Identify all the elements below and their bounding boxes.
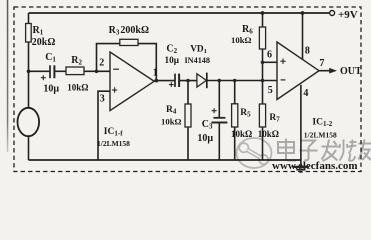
wire pin3 to ground rail — [98, 91, 110, 160]
op-amp U1 triangle — [110, 52, 154, 111]
svg-text:10kΩ: 10kΩ — [258, 129, 279, 139]
node pin6 tap — [261, 61, 265, 65]
svg-text:10kΩ: 10kΩ — [67, 83, 88, 93]
svg-text:OUT: OUT — [340, 66, 362, 77]
svg-text:IC1-2: IC1-2 — [312, 118, 332, 129]
resistor R4 — [185, 104, 191, 127]
wire C1 to R2 to pin2 — [29, 70, 50, 72]
wire R4 branch — [187, 81, 189, 104]
op1 minus input mark — [113, 68, 119, 70]
resistor R3 — [120, 39, 138, 45]
op1 plus input mark — [112, 87, 117, 92]
svg-text:7: 7 — [319, 58, 324, 69]
svg-text:+9V: +9V — [338, 9, 358, 21]
node R6 top rail tap — [261, 11, 265, 15]
svg-text:IN4148: IN4148 — [185, 56, 210, 65]
node R5 tap — [233, 79, 237, 83]
svg-text:R5: R5 — [240, 108, 251, 119]
wire op2 output — [319, 70, 331, 72]
node pin8 rail tap — [301, 11, 305, 15]
node main wire / R7 tap — [261, 79, 265, 83]
watermark char 烧 — [340, 140, 357, 161]
op2 plus input mark — [280, 59, 285, 64]
svg-text:200kΩ: 200kΩ — [120, 25, 149, 36]
op-amp U2 triangle — [277, 42, 319, 100]
capacitor C2 — [174, 74, 176, 87]
wire C2 to diode — [179, 80, 197, 82]
node R4 tap — [186, 79, 190, 83]
wire pin8 — [302, 13, 304, 59]
svg-text:3: 3 — [100, 94, 105, 105]
svg-text:2: 2 — [99, 58, 104, 69]
capacitor C1 — [49, 65, 51, 78]
resistor R2 — [66, 67, 84, 75]
diode VD1 — [197, 74, 206, 87]
svg-text:10kΩ: 10kΩ — [231, 129, 252, 139]
wire op1 output to C2 — [154, 80, 175, 82]
svg-text:10μ: 10μ — [197, 133, 213, 144]
watermark char 子 — [300, 141, 318, 161]
output arrow — [329, 68, 337, 74]
resistor R5 — [232, 104, 238, 127]
svg-text:8: 8 — [305, 46, 310, 57]
ground symbol — [293, 167, 309, 172]
svg-text:1: 1 — [153, 68, 158, 79]
watermark char 电 — [278, 139, 296, 161]
svg-text:10kΩ: 10kΩ — [231, 35, 252, 45]
svg-text:1/2LM158: 1/2LM158 — [304, 130, 337, 139]
wire top +9V rail — [29, 12, 330, 14]
wire R6 R7 column — [262, 13, 264, 27]
dashed border frame — [14, 7, 361, 172]
wire C3 branch — [218, 81, 220, 118]
wire R5 branch — [234, 81, 236, 104]
svg-text:IC1-f: IC1-f — [104, 127, 123, 138]
node C3 tap — [218, 79, 222, 83]
svg-text:4: 4 — [303, 88, 308, 99]
svg-text:20kΩ: 20kΩ — [32, 37, 56, 48]
node output op1 — [154, 79, 158, 83]
svg-text:5: 5 — [268, 85, 273, 96]
svg-text:1/2LM158: 1/2LM158 — [97, 139, 130, 148]
svg-text:10μ: 10μ — [165, 55, 180, 65]
wire pin4 to ground — [300, 85, 302, 167]
microphone BM — [18, 108, 40, 136]
watermark char 发 — [322, 140, 339, 162]
watermark char 友 — [359, 140, 371, 161]
svg-text:R4: R4 — [166, 105, 177, 116]
op2 minus input mark — [281, 79, 286, 81]
svg-text:10kΩ: 10kΩ — [161, 117, 182, 127]
wire pin6 — [263, 61, 278, 63]
wire left column — [28, 13, 30, 109]
resistor R6 — [259, 27, 265, 49]
svg-text:www.elecfans.com: www.elecfans.com — [272, 160, 358, 172]
+9V supply terminal — [330, 11, 335, 16]
resistor R7 — [259, 104, 265, 127]
wire bottom ground rail — [29, 159, 301, 161]
node 2 junction — [95, 70, 99, 74]
wire diode to pin5 — [207, 80, 277, 82]
capacitor C3 — [213, 117, 225, 119]
page left edge line — [7, 0, 9, 152]
wire feedback loop R3 — [97, 44, 157, 81]
watermark logo circle (elecfans) — [237, 138, 272, 168]
node C1 tap junction — [27, 70, 31, 74]
resistor R1 — [26, 24, 32, 43]
svg-text:R7: R7 — [269, 113, 280, 124]
svg-text:6: 6 — [267, 50, 272, 61]
svg-text:10μ: 10μ — [43, 84, 59, 95]
